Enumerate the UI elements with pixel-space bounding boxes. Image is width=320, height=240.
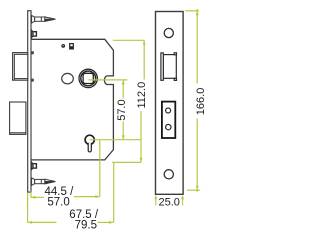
screw hole tab top — [31, 30, 36, 38]
svg-text:112.0: 112.0 — [136, 82, 148, 109]
rivet dot — [61, 44, 65, 48]
dimension 166.0 vertical — [185, 9, 200, 192]
deadbolt hole upper — [166, 108, 171, 113]
deadbolt hole lower — [166, 124, 171, 129]
svg-text:79.5: 79.5 — [75, 220, 97, 232]
latch tab lower — [31, 79, 34, 82]
faceplate — [156, 12, 184, 195]
svg-text:166.0: 166.0 — [195, 88, 207, 116]
faceplate bottom hole — [164, 170, 173, 179]
faceplate top hole — [164, 28, 173, 37]
svg-text:57.0: 57.0 — [47, 197, 69, 209]
spindle follower — [79, 69, 97, 87]
latch bolt box — [13, 53, 28, 81]
faceplate deadbolt cutout — [162, 102, 175, 138]
screw hole tab bottom — [31, 162, 36, 170]
svg-text:57.0: 57.0 — [116, 99, 128, 120]
faceplate latch cutout — [161, 53, 177, 81]
dimension 25.0 horizontal — [156, 197, 183, 206]
screw bottom — [32, 178, 56, 186]
cylinder oval — [62, 73, 74, 83]
lock case outline — [31, 39, 113, 160]
latch tab upper — [31, 51, 34, 54]
svg-text:25.0: 25.0 — [159, 197, 180, 209]
forend plate — [27, 11, 32, 193]
keyhole — [85, 135, 94, 152]
dimension 44.5 / 57.0 horizontal — [31, 140, 100, 198]
dimension 112.0 vertical — [112, 40, 144, 162]
deadbolt box — [10, 102, 26, 134]
screw top — [32, 15, 56, 23]
dimension 67.5 / 79.5 horizontal — [28, 162, 114, 222]
dimension 57.0 vertical — [89, 80, 141, 140]
rivet square — [70, 44, 74, 49]
